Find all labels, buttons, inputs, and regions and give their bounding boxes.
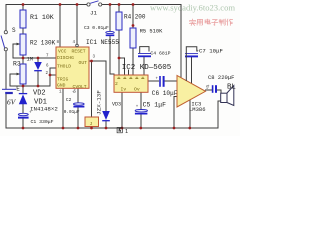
svg-text:J: J (90, 121, 93, 127)
wire amp pin3 ground (174, 97, 177, 129)
wire pin2 (50, 74, 56, 76)
battery E 6V (2, 89, 16, 93)
wire R1 top lead (22, 5, 24, 11)
wire amp pin6 top (185, 53, 187, 81)
wire relay coil top lead (91, 61, 93, 117)
wire R2 wiper drop (12, 44, 14, 58)
op-amp IC3 LM386 (177, 76, 206, 108)
svg-text:2: 2 (115, 81, 118, 87)
wire VD1 leads (22, 86, 24, 93)
wire C3 top lead (109, 5, 111, 32)
wire pin6 (50, 68, 56, 86)
svg-text:0.01μF: 0.01μF (64, 110, 80, 115)
watermark red chinese (drawn glyphs: 实用电子制作) (189, 19, 232, 25)
svg-text:IN4148×2: IN4148×2 (30, 106, 58, 113)
capacitor C1 (18, 112, 32, 118)
svg-text:200: 200 (135, 13, 146, 20)
svg-text:TRIG: TRIG (57, 76, 68, 82)
wire C6 to amp (165, 80, 177, 82)
svg-text:C5 1μF: C5 1μF (143, 102, 167, 109)
figure caption glyph 图 (117, 127, 122, 132)
wire left rail upper (5, 5, 7, 31)
svg-text:VCC: VCC (58, 49, 67, 55)
wire amp pin7 from C7 (190, 57, 192, 84)
wire relay coil bottom lead (91, 127, 93, 129)
svg-text:R4: R4 (124, 13, 132, 20)
wire C2 bottom lead (77, 108, 79, 129)
resistor R5 (130, 28, 136, 48)
wire C4 bottom lead (143, 57, 145, 75)
wire IC2 stub pin (128, 70, 130, 75)
wire left rail mid (5, 51, 7, 89)
wire R4 top lead (118, 5, 120, 13)
wire IC2 out to C6 (148, 80, 159, 82)
resistor R2 (rheostat) (13, 34, 26, 55)
wire IC2 pin bottom right to C5 (140, 92, 142, 110)
svg-text:R2 130K: R2 130K (30, 40, 56, 47)
svg-text:C7 10μF: C7 10μF (199, 48, 223, 55)
IC1 NE555 box (56, 44, 89, 90)
svg-text:CVOLT: CVOLT (73, 84, 87, 90)
wire C5 bottom lead (140, 114, 142, 128)
capacitor C3 (106, 31, 115, 35)
wire R3 wiper drop (9, 74, 11, 86)
wire C1 bottom lead (22, 119, 24, 128)
svg-text:C8 220μF: C8 220μF (208, 74, 234, 81)
wire R4 bottom lead (118, 30, 120, 75)
svg-text:OUT: OUT (79, 60, 88, 66)
wire R1-R2 link (22, 28, 24, 34)
wire IC2 pin bottom left (121, 92, 123, 128)
svg-text:VD3: VD3 (112, 101, 121, 107)
wire node y58 (13, 57, 56, 59)
pin numbers (46, 41, 210, 95)
wire R5 top lead (132, 5, 134, 29)
svg-text:R1 10K: R1 10K (30, 14, 54, 21)
diode VD1 (19, 94, 27, 105)
svg-text:C4 681P: C4 681P (150, 50, 170, 56)
capacitor C2 (72, 92, 84, 107)
svg-text:BL: BL (227, 84, 236, 92)
svg-text:LM386: LM386 (189, 106, 206, 113)
wire OUT node (89, 61, 106, 111)
wire bottom rail (6, 101, 221, 128)
svg-text:RESET: RESET (72, 49, 86, 55)
resistor R1 (20, 10, 26, 28)
diode VD2 (34, 62, 42, 71)
svg-text:C1 330μF: C1 330μF (31, 119, 54, 125)
wire R3 leads (22, 58, 24, 64)
resistor R4 (116, 12, 122, 30)
svg-text:R3: R3 (13, 61, 21, 68)
resistor R3 (rheostat) (10, 64, 26, 84)
svg-text:R5 510K: R5 510K (140, 28, 163, 34)
wire VD3 bottom lead (105, 121, 107, 128)
wire IC1 gnd pin1 (62, 88, 64, 128)
svg-text:1M: 1M (27, 57, 33, 63)
relay contact J1 (87, 1, 102, 6)
capacitor C7 (185, 47, 200, 57)
svg-text:C3 0.01μF: C3 0.01μF (84, 25, 109, 31)
wire amp pin4 ground (189, 100, 191, 129)
svg-text:VD2: VD2 (33, 90, 46, 98)
wire R4 node jog (119, 58, 125, 75)
svg-text:E: E (16, 86, 20, 93)
wire C3 bottom lead (110, 36, 114, 74)
svg-text:1: 1 (125, 129, 128, 135)
node junction dots (22, 3, 192, 129)
wire left rail lower (5, 94, 7, 128)
svg-text:JZX-13F: JZX-13F (96, 90, 103, 115)
svg-text:IC1 NE555: IC1 NE555 (86, 39, 119, 46)
wire R5 bottom lead (132, 48, 134, 75)
wire IC1 pin4 (76, 5, 78, 45)
capacitor C6 (156, 76, 164, 87)
wire right rail (180, 5, 182, 79)
IC2 KD-5605 box (114, 75, 148, 93)
svg-text:Iv: Iv (121, 87, 127, 93)
capacitor C4 (138, 47, 151, 57)
capacitor C5 (135, 106, 148, 114)
svg-text:C6 10μF: C6 10μF (152, 90, 178, 97)
wire C8 to speaker (217, 90, 221, 94)
wire IC1 pin5 to C2 (77, 88, 79, 103)
speaker BL (221, 86, 234, 106)
wire J1 right link (102, 4, 110, 6)
wire VD2 leads (37, 58, 39, 62)
svg-text:J1: J1 (90, 10, 97, 17)
diode VD3 (102, 111, 110, 121)
svg-text:S: S (12, 27, 16, 34)
svg-text:THOLD: THOLD (57, 63, 71, 69)
wire top rail (6, 4, 87, 6)
relay coil J (85, 117, 99, 127)
svg-text:C2: C2 (66, 97, 72, 103)
svg-text:Ov: Ov (134, 87, 140, 93)
svg-text:GND: GND (57, 83, 66, 89)
wire R2 bottom lead (22, 55, 24, 58)
capacitor C8 (207, 85, 216, 93)
switch S (1, 31, 7, 51)
wire amp output (206, 89, 212, 91)
svg-text:IC2 KD—5605: IC2 KD—5605 (122, 64, 172, 72)
wire node y86 (10, 85, 50, 87)
svg-text:DISCHG: DISCHG (57, 55, 74, 61)
wire IC1 pin8 (59, 5, 61, 48)
